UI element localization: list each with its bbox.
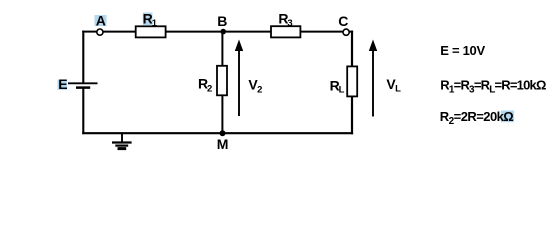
node A terminal circle (97, 29, 103, 35)
node M junction dot (220, 130, 226, 136)
voltage arrow VL head (369, 40, 377, 52)
svg-text:3: 3 (287, 18, 292, 29)
wire: top rail left segment (corner A-side) (82, 31, 97, 33)
svg-text:E = 10V: E = 10V (440, 43, 485, 58)
ground symbol bar 2 (115, 145, 128, 147)
svg-text:L: L (339, 85, 345, 96)
equation line 2: R1=R3=RL=R=10kohm (440, 77, 546, 95)
wire: left vertical from battery to bottom rail (82, 88, 84, 135)
svg-text:L: L (395, 84, 401, 95)
svg-text:2: 2 (207, 84, 212, 95)
equation line 1: E = 10V (440, 43, 485, 58)
wire: top rail stub from C circle to right corner (349, 31, 353, 33)
wire: node B vertical drop to R2 (221, 32, 223, 66)
voltage arrow V2 head (235, 40, 243, 52)
node M label (217, 136, 229, 152)
svg-text:B: B (217, 13, 227, 29)
voltage arrow V2 shaft (238, 50, 240, 116)
wire: R2 to node M (221, 95, 223, 133)
resistor R1 body (136, 26, 166, 37)
node B label (217, 13, 227, 29)
voltage arrow VL shaft (372, 50, 374, 117)
ground symbol bar 3 (118, 147, 127, 150)
wire: top rail from R3 to C circle (300, 31, 343, 33)
node A label (highlighted) (95, 12, 107, 28)
svg-text:C: C (338, 13, 348, 29)
wire: left vertical from corner A down to battery (82, 31, 84, 84)
V2 label (248, 76, 262, 95)
equation line 3 highlight on ohm symbol (501, 111, 514, 123)
equation line 3: R2=2R=20kohm (440, 109, 514, 127)
battery E negative plate (short thick) (76, 86, 90, 89)
battery E positive plate (long) (68, 82, 98, 84)
resistor R1 label (highlighted) (143, 10, 158, 29)
svg-text:2: 2 (257, 84, 262, 95)
wire: right vertical from RL to bottom rail (351, 96, 353, 134)
node C terminal circle (343, 29, 349, 35)
ground symbol bar 1 (112, 141, 132, 143)
wire: top rail from A circle to R1 (103, 31, 136, 33)
node B junction dot (220, 29, 226, 35)
node C label (338, 13, 348, 29)
svg-text:R2=2R=20kΩ: R2=2R=20kΩ (440, 109, 514, 127)
resistor R3 label (278, 10, 292, 29)
wire: right vertical from corner down to RL (351, 31, 353, 67)
svg-text:E: E (58, 76, 67, 92)
ground symbol stub (121, 134, 123, 143)
wire: top rail from R1 to R3 (through node B) (166, 31, 272, 33)
svg-text:M: M (217, 136, 229, 152)
resistor R2 body (217, 66, 227, 96)
svg-text:1: 1 (152, 18, 158, 29)
resistor RL body (347, 66, 357, 96)
battery E label (highlighted) (58, 76, 68, 92)
resistor R3 body (271, 26, 300, 37)
wire: bottom rail (82, 132, 353, 134)
resistor R2 label (198, 76, 212, 95)
resistor RL label (330, 77, 345, 95)
VL label (386, 76, 401, 95)
svg-text:R1=R3=RL=R=10kΩ: R1=R3=RL=R=10kΩ (440, 77, 546, 95)
svg-text:A: A (96, 12, 106, 28)
